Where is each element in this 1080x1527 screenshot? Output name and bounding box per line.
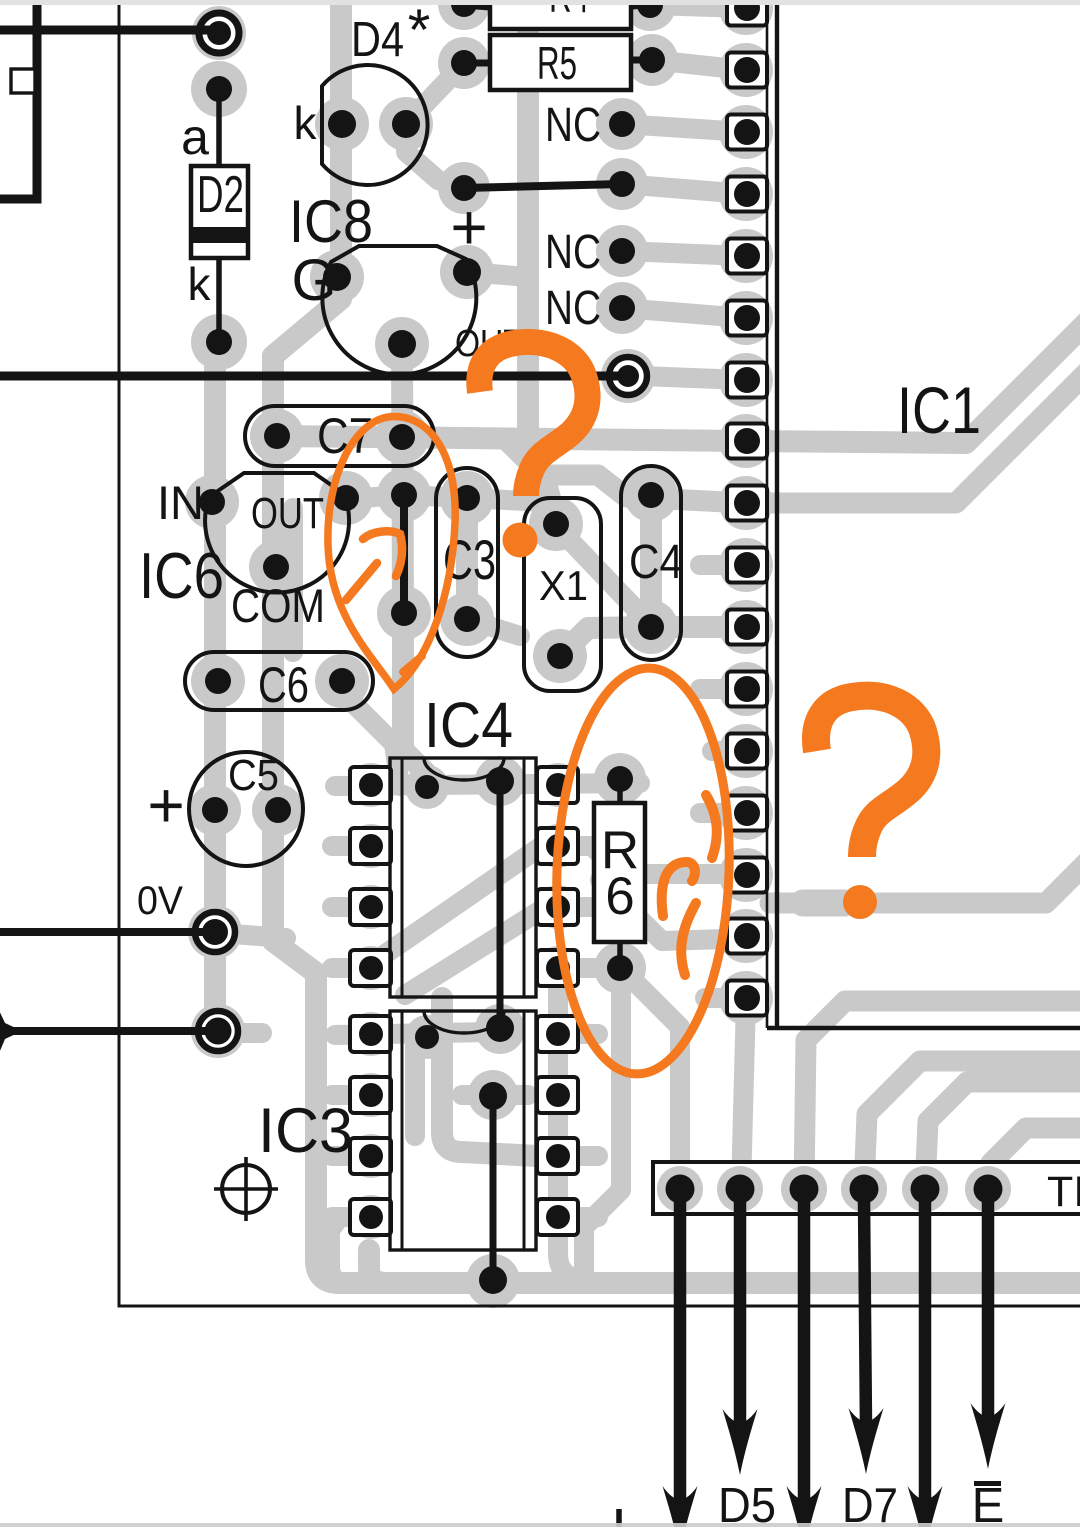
svg-text:TI: TI [1047, 1168, 1080, 1216]
svg-text:D2: D2 [197, 166, 244, 224]
svg-text:E: E [972, 1479, 1005, 1527]
svg-text:IC6: IC6 [139, 539, 224, 612]
svg-text:+: + [450, 191, 487, 263]
svg-text:IN: IN [157, 476, 204, 529]
svg-text:6: 6 [605, 867, 634, 926]
svg-text:IC4: IC4 [424, 689, 513, 761]
svg-text:IC3: IC3 [258, 1096, 353, 1166]
svg-text:NC: NC [545, 99, 601, 152]
svg-text:0V: 0V [137, 879, 183, 923]
svg-text:k: k [188, 258, 212, 310]
svg-text:G: G [291, 248, 336, 313]
svg-text:IC1: IC1 [897, 373, 981, 447]
svg-text:+: + [147, 769, 184, 841]
svg-text:a: a [181, 109, 209, 165]
svg-text:R5: R5 [537, 37, 577, 89]
svg-text:NC: NC [545, 226, 601, 279]
svg-text:C4: C4 [629, 536, 683, 589]
svg-text:OUT: OUT [251, 489, 324, 538]
svg-text:k: k [294, 97, 318, 149]
svg-text:D5: D5 [718, 1479, 776, 1527]
svg-text:NC: NC [545, 282, 601, 335]
svg-text:COM: COM [231, 579, 325, 632]
svg-text:X1: X1 [539, 562, 588, 609]
svg-text:D7: D7 [842, 1479, 898, 1527]
svg-text:D4: D4 [351, 13, 404, 67]
svg-text:IC8: IC8 [289, 188, 373, 255]
svg-text:C6: C6 [258, 657, 309, 713]
svg-text:*: * [408, 0, 431, 63]
svg-text:C5: C5 [228, 751, 279, 800]
